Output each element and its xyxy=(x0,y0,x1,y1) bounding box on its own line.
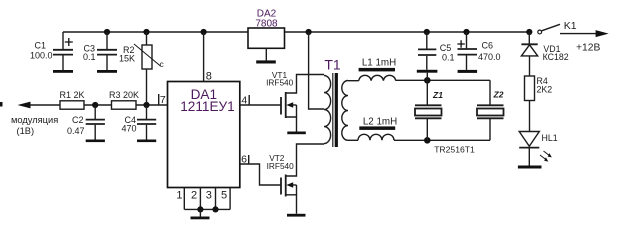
node junction Z1 top xyxy=(424,77,431,84)
svg-text:HL1: HL1 xyxy=(542,133,558,143)
svg-text:0.1: 0.1 xyxy=(442,53,455,63)
wire DA2 to ground xyxy=(265,48,267,60)
svg-text:3: 3 xyxy=(206,190,212,202)
ground C1 xyxy=(53,70,73,73)
pin 3 wire xyxy=(215,188,217,210)
svg-text:6: 6 xyxy=(241,154,247,166)
svg-text:C5: C5 xyxy=(440,43,452,53)
op-amp U1 DA1 1211ЕУ1 box xyxy=(168,82,240,188)
svg-text:4: 4 xyxy=(241,95,247,107)
wire ground C5 to tank node xyxy=(426,73,428,81)
node junction K1/rail xyxy=(526,29,532,35)
svg-text:8: 8 xyxy=(206,71,212,83)
svg-text:0.47: 0.47 xyxy=(67,126,85,136)
wire tank top rail xyxy=(396,79,490,81)
svg-text:470.0: 470.0 xyxy=(478,52,501,62)
capacitor C1 xyxy=(30,32,73,70)
transformer T1 core xyxy=(333,73,338,147)
crystal Z1 xyxy=(415,80,443,140)
resistor R3 20K xyxy=(109,90,139,109)
capacitor C3 xyxy=(83,32,117,70)
node junction C2 xyxy=(92,102,98,108)
svg-text:1211ЕУ1: 1211ЕУ1 xyxy=(180,99,235,114)
node junction C6/rail xyxy=(463,29,469,35)
wire top supply rail left segment xyxy=(63,31,248,33)
svg-text:K1: K1 xyxy=(564,20,577,32)
pin 7 label xyxy=(159,94,166,106)
capacitor C5 0.1 xyxy=(418,32,455,70)
svg-text:TR2516T1: TR2516T1 xyxy=(434,144,475,154)
node input edge mark xyxy=(0,102,3,107)
inductor T1 primary winding xyxy=(324,76,331,144)
wire top supply rail right segment xyxy=(285,31,530,33)
svg-text:7: 7 xyxy=(160,94,166,106)
svg-text:1: 1 xyxy=(176,190,182,202)
svg-text:0.1: 0.1 xyxy=(83,52,96,62)
svg-text:15K: 15K xyxy=(119,54,135,64)
wire DA1 bottom bus xyxy=(184,208,230,210)
svg-text:КС182: КС182 xyxy=(543,52,569,62)
node junction T1 tap/rail xyxy=(306,29,312,35)
svg-text:(1В): (1В) xyxy=(17,126,35,136)
ground VT2 source xyxy=(287,214,306,217)
inductor L2 1mH xyxy=(358,117,397,141)
svg-text:7808: 7808 xyxy=(255,18,278,29)
svg-text:R3 20K: R3 20K xyxy=(109,90,139,100)
svg-text:5: 5 xyxy=(221,190,227,202)
pin 1 wire xyxy=(183,188,185,210)
svg-text:2K2: 2K2 xyxy=(537,84,553,94)
node junction R2/rail xyxy=(143,29,149,35)
pin 4 wire to VT1 gate xyxy=(240,104,282,106)
wire bus to ground xyxy=(199,209,201,216)
resistor R1 2K xyxy=(59,90,84,109)
wire secondary top to L1 xyxy=(348,80,359,82)
capacitor C4 470 xyxy=(121,105,156,140)
svg-text:C1: C1 xyxy=(34,41,46,51)
pin 5 wire xyxy=(229,188,231,210)
svg-text:L2 1mH: L2 1mH xyxy=(363,117,397,128)
svg-text:470: 470 xyxy=(121,124,136,134)
ground C3 xyxy=(97,70,117,73)
svg-text:+12В: +12В xyxy=(576,42,600,53)
capacitor C2 0.47 xyxy=(67,105,105,140)
capacitor C6 470.0 xyxy=(457,32,500,70)
wire T1 center tap xyxy=(309,32,324,109)
svg-text:Z2: Z2 xyxy=(493,90,504,100)
node junction C3/rail xyxy=(104,29,110,35)
pin 6 wire to VT2 gate xyxy=(240,164,282,185)
node junction pin3/bus xyxy=(212,206,218,212)
ground DA1 xyxy=(191,217,210,220)
wire secondary bottom to L2 xyxy=(348,139,358,141)
crystal Z2 xyxy=(477,80,504,140)
svg-text:C6: C6 xyxy=(482,40,494,50)
ground C5 xyxy=(417,70,438,73)
ground C2 xyxy=(86,140,105,143)
ground DA2 xyxy=(256,60,276,63)
resistor R4 2K2 xyxy=(525,76,553,132)
svg-text:C2: C2 xyxy=(72,115,84,125)
resistor R2 15K (thermistor) xyxy=(119,32,165,105)
node junction Z1 bottom xyxy=(424,137,431,144)
transistor Q2 VT2 IRF540 xyxy=(267,144,324,214)
pin 6 label xyxy=(241,154,249,166)
diode VD1 КС182 zener xyxy=(521,32,568,76)
wire R3 to DA1 pin7 xyxy=(136,104,168,106)
svg-text:2: 2 xyxy=(191,190,197,202)
svg-text:Z1: Z1 xyxy=(432,90,443,100)
wire R1 to C2 node xyxy=(84,104,112,106)
ground C6 xyxy=(458,70,478,73)
inductor T1 secondary winding xyxy=(342,81,348,141)
pin 4 label xyxy=(241,95,249,107)
ground C4 xyxy=(137,140,156,143)
svg-text:L1 1mH: L1 1mH xyxy=(362,57,396,68)
svg-text:IRF540: IRF540 xyxy=(267,161,295,171)
node junction pin8/rail xyxy=(201,29,207,35)
svg-text:T1: T1 xyxy=(324,57,341,73)
LED HL1 xyxy=(519,132,558,166)
node junction pin2/bus xyxy=(197,206,203,212)
svg-text:100.0: 100.0 xyxy=(30,51,53,61)
svg-text:IRF540: IRF540 xyxy=(266,78,294,88)
svg-text:модуляция: модуляция xyxy=(11,115,58,125)
wire tank bottom rail xyxy=(394,139,490,141)
pin 8 wire xyxy=(203,32,205,82)
pin 2 wire xyxy=(199,188,201,210)
node output +12В arrow xyxy=(560,30,609,53)
inductor L1 1mH xyxy=(359,57,397,80)
ground HL1 xyxy=(518,166,542,169)
op-amp U2 DA2 7808 regulator xyxy=(248,8,285,48)
svg-text:R1 2K: R1 2K xyxy=(59,90,84,100)
ground VT1 source xyxy=(287,132,306,135)
node input arrow модуляция xyxy=(11,102,60,136)
node junction C4/R2 xyxy=(143,102,149,108)
switch K1 xyxy=(538,20,577,34)
transistor Q1 VT1 IRF540 xyxy=(266,70,324,132)
node junction C5/rail xyxy=(424,29,430,35)
